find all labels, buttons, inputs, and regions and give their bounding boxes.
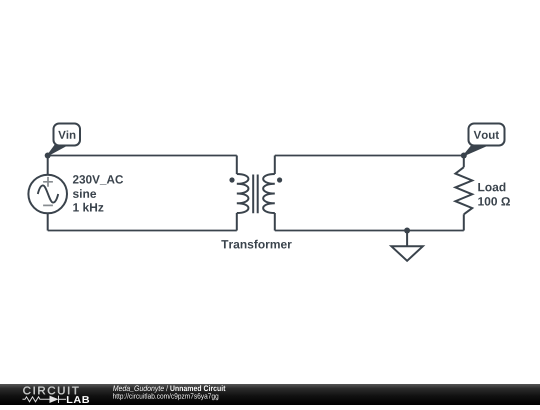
ground triangle — [391, 246, 422, 260]
resistor Load lead bottom — [463, 214, 465, 230]
logo wire with resistor and diode — [23, 396, 67, 403]
voltage source V1 leads — [47, 156, 49, 231]
voltage source V1 circle — [28, 175, 67, 214]
transformer T1 phase dot primary — [229, 177, 234, 182]
flag Vin tail — [48, 145, 68, 156]
transformer T1 secondary lead bottom — [274, 213, 276, 231]
resistor Load zigzag — [455, 167, 472, 214]
logo LAB text — [67, 396, 89, 403]
transformer T1 secondary lead top — [274, 156, 276, 175]
wire top-right (secondary to Vout node) — [275, 155, 464, 157]
voltage source V1 plus sign — [43, 177, 53, 187]
ground junction dot — [404, 228, 410, 234]
wire top-left (Vin node to transformer primary) — [48, 155, 237, 157]
voltage source V1 minus sign — [43, 204, 53, 206]
transformer T1 phase dot secondary — [277, 177, 282, 182]
footer bar — [0, 384, 540, 405]
transformer T1 core — [253, 175, 258, 214]
node Vin junction dot — [45, 153, 51, 159]
flag Vin text — [58, 130, 75, 138]
label transformer name: Transformer — [221, 240, 291, 249]
transformer T1 primary lead bottom — [236, 213, 238, 231]
node Vout junction dot — [461, 153, 467, 159]
voltage source V1 sine — [38, 185, 58, 202]
resistor Load lead top — [463, 156, 465, 168]
label V1 value line 2: sine — [73, 189, 96, 198]
footer url text: circuitlab address — [113, 393, 218, 400]
transformer T1 primary winding — [237, 174, 249, 213]
flag Vout text — [474, 131, 499, 139]
footer author and title: Meda_Gudonyte / Unnamed Circuit — [113, 385, 225, 392]
label resistor name: Load — [478, 183, 505, 192]
wire bottom-left — [48, 230, 237, 232]
transformer T1 primary lead top — [236, 156, 238, 175]
transformer T1 secondary winding — [263, 174, 275, 213]
logo CIRCUIT text — [23, 387, 78, 395]
wire bottom-right — [275, 230, 464, 232]
ground stub — [406, 231, 408, 247]
flag Vout tail — [464, 145, 489, 156]
flag Vin box — [54, 124, 81, 146]
label V1 value line 1: 230V_AC — [73, 175, 123, 185]
label V1 value line 3: 1 kHz — [73, 203, 103, 212]
label resistor value: 100 Ohm — [478, 197, 510, 206]
flag Vout box — [469, 124, 505, 146]
